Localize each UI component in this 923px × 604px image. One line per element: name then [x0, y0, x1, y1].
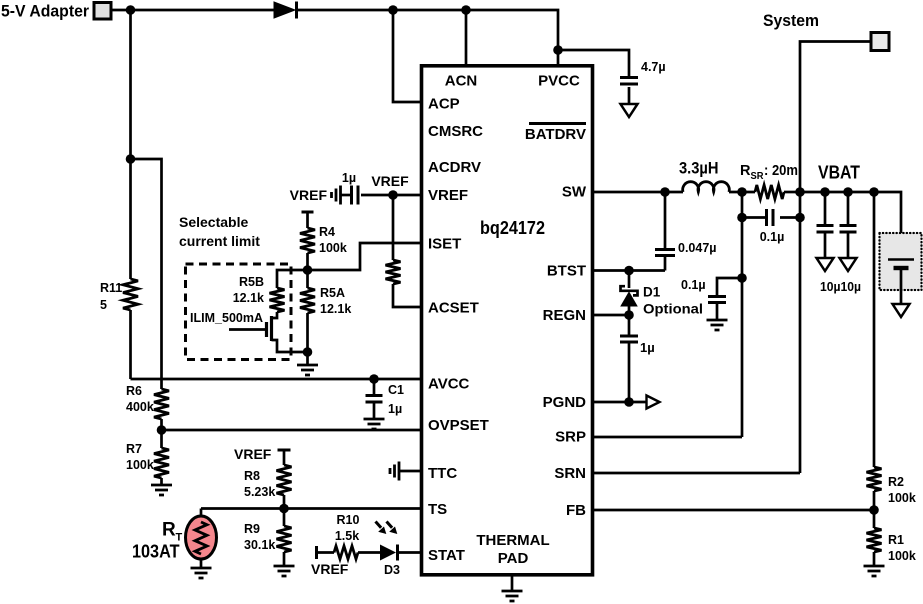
capacitor 10u A — [817, 226, 834, 233]
svg-text:current limit: current limit — [179, 233, 260, 249]
svg-text:THERMAL: THERMAL — [476, 532, 549, 549]
label 1u VREF cap — [342, 171, 356, 185]
wire AVCC net — [131, 378, 422, 381]
svg-text:PVCC: PVCC — [538, 73, 580, 90]
svg-text:12.1k: 12.1k — [233, 291, 264, 305]
wire filter right — [780, 216, 800, 219]
label 4.7u — [641, 60, 666, 74]
capacitor 0.1u filter — [767, 209, 774, 226]
resistor R5A 12.1k — [300, 288, 315, 313]
junction R8 R9 TS — [279, 504, 289, 514]
pin TTC — [428, 465, 457, 482]
label R2 value 100k — [888, 491, 916, 505]
svg-text:TTC: TTC — [428, 465, 457, 482]
wire TS net — [201, 507, 421, 510]
junction C1 on AVCC — [369, 374, 379, 384]
wire R2 to FB — [873, 491, 876, 510]
junction R6 R7 OVPSET — [157, 425, 167, 435]
label Selectable — [179, 214, 248, 230]
wire OVPSET net — [162, 429, 422, 432]
wire D1 cathode — [628, 271, 631, 289]
label RSR 20m — [740, 163, 798, 182]
ground sideways VREF cap — [332, 186, 341, 205]
wire SRN net — [593, 472, 801, 475]
ground R7 — [151, 485, 172, 495]
resistor ACSET divider — [386, 260, 401, 284]
junction filter left — [737, 213, 747, 223]
wire VREF down to ACSET resistor — [392, 195, 395, 260]
pin ACDRV — [428, 159, 481, 176]
svg-text:FB: FB — [566, 502, 586, 519]
pin ACN — [445, 73, 478, 90]
label R7 — [126, 442, 142, 456]
pin STAT — [428, 547, 465, 564]
svg-text:SR: SR — [751, 171, 765, 182]
capacitor 0.1u SRP gnd — [708, 297, 726, 303]
ground R5 network — [297, 365, 318, 375]
pin OVPSET — [428, 417, 489, 434]
pin CMSRC — [428, 123, 483, 140]
svg-text:R9: R9 — [244, 522, 260, 536]
junction 0.1u on SRP line — [737, 273, 747, 283]
svg-text:ACN: ACN — [445, 73, 478, 90]
junction FB divider — [869, 505, 879, 515]
wire 4.7u cap to gnd — [628, 87, 631, 104]
wire R11 to AVCC — [129, 310, 132, 379]
svg-text:REGN: REGN — [543, 307, 586, 324]
svg-text:103AT: 103AT — [132, 542, 180, 562]
junction VBAT node — [795, 187, 805, 197]
label R5B value 12.1k — [233, 291, 264, 305]
label R4 — [319, 225, 335, 239]
diode D1 schottky optional — [620, 286, 638, 306]
svg-text:D3: D3 — [384, 563, 400, 577]
label 0.1u srp cap — [681, 278, 706, 292]
wire 0.047u to BTST — [664, 256, 667, 271]
wire ISET net — [308, 243, 422, 270]
resistor R4 100k — [300, 228, 315, 253]
ground power 4.7u — [621, 104, 638, 117]
svg-text:D1: D1 — [643, 285, 661, 300]
svg-text:5.23k: 5.23k — [244, 485, 275, 499]
wire BTST net — [593, 269, 666, 272]
ground sideways TTC — [390, 462, 399, 481]
wire junction to R5A — [306, 270, 309, 288]
wire R6 to OVPSET — [160, 419, 163, 430]
label R11 value 5 — [100, 298, 107, 312]
wire R5B to drain — [272, 312, 278, 318]
svg-text:30.1k: 30.1k — [244, 538, 275, 552]
resistor R10 1.5k — [334, 546, 358, 559]
wire R8 top — [283, 450, 286, 465]
junction filter right — [795, 213, 805, 223]
label R5B — [239, 275, 264, 289]
label R10 value 1.5k — [335, 529, 359, 543]
wire R5A to bottom junction — [306, 313, 309, 352]
ground 0.1u — [707, 320, 728, 330]
wire R4 top — [306, 212, 309, 228]
resistor R6 400k — [154, 389, 169, 419]
pin SRP — [555, 429, 586, 446]
op-amp U1 bq24172 body — [422, 66, 593, 575]
transistor Q1 nmos — [267, 316, 272, 341]
label R8 — [244, 469, 260, 483]
label R9 value 30.1k — [244, 538, 275, 552]
ground power 10u A — [817, 258, 834, 271]
svg-text:: 20m: : 20m — [764, 163, 798, 179]
label R1 value 100k — [888, 549, 916, 563]
svg-text:SRP: SRP — [555, 429, 586, 446]
junction SW 0.047u — [660, 187, 670, 197]
resistor R9 30.1k — [277, 526, 292, 552]
wire gnd to 1u cap — [341, 194, 351, 197]
battery cell symbol — [888, 260, 914, 269]
wire R1 to gnd — [873, 552, 876, 565]
svg-text:ILIM_500mA: ILIM_500mA — [190, 311, 263, 325]
dashed box selectable current limit — [186, 264, 292, 360]
label R4 value 100k — [319, 241, 347, 255]
svg-text:ACDRV: ACDRV — [428, 159, 481, 176]
ground power battery — [893, 304, 910, 317]
svg-text:TS: TS — [428, 501, 447, 518]
label current limit — [179, 233, 260, 249]
svg-text:12.1k: 12.1k — [320, 302, 351, 316]
label ILIM_500mA — [190, 311, 263, 325]
wire FB to R1 — [873, 510, 876, 528]
wire SW to 0.047u — [664, 192, 667, 249]
svg-text:VREF: VREF — [428, 187, 468, 204]
junction PGND — [624, 397, 634, 407]
LED arrows D3 — [376, 522, 398, 535]
svg-text:R: R — [162, 520, 176, 541]
wire diode to PVCC corner — [297, 10, 559, 66]
arrow PGND net pointer — [647, 396, 660, 409]
junction REGN D1 — [624, 310, 634, 320]
svg-text:100k: 100k — [888, 491, 916, 505]
svg-text:1.5k: 1.5k — [335, 529, 359, 543]
label VREF net left — [290, 187, 328, 203]
label 5-V Adapter — [1, 2, 89, 21]
svg-text:100k: 100k — [888, 549, 916, 563]
junction R4 R5A ISET — [303, 265, 313, 275]
label R10 — [337, 513, 360, 527]
wire 10u B top — [847, 192, 850, 225]
wire D1 anode to REGN — [628, 307, 631, 316]
ground power 10u B — [840, 258, 857, 271]
resistor zigzag inside RT — [195, 522, 207, 554]
wire PVCC to 4.7u cap — [558, 50, 629, 78]
wire battery bottom — [900, 268, 903, 304]
ground R9 — [274, 566, 295, 576]
junction D1 BTST — [624, 266, 634, 276]
svg-text:1µ: 1µ — [342, 171, 356, 185]
svg-text:OVPSET: OVPSET — [428, 417, 489, 434]
svg-text:BATDRV: BATDRV — [525, 126, 586, 143]
ground C1 — [364, 419, 385, 429]
junction adapter node — [126, 5, 136, 15]
wire branch to R6 rail — [131, 159, 162, 389]
pin TS — [428, 501, 447, 518]
wire 1u cap to VREF pin — [361, 194, 421, 197]
label D1 Optional — [643, 302, 703, 317]
svg-text:100k: 100k — [319, 241, 347, 255]
svg-text:400k: 400k — [126, 400, 154, 414]
svg-text:1µ: 1µ — [388, 402, 402, 416]
label VREF net at pin — [371, 173, 409, 189]
wire thermal pad to gnd — [511, 575, 514, 590]
wire R7 to gnd — [160, 478, 163, 484]
label R2 — [888, 475, 904, 489]
node PVCC tap — [553, 45, 563, 55]
wire R10 to D3 — [358, 551, 380, 554]
capacitor 1u REGN — [620, 336, 638, 342]
svg-text:ACSET: ACSET — [428, 300, 479, 317]
svg-text:R2: R2 — [888, 475, 904, 489]
svg-text:R6: R6 — [126, 384, 142, 398]
svg-text:AVCC: AVCC — [428, 376, 470, 393]
resistor R5B 12.1k — [270, 288, 285, 312]
diode D3 LED — [380, 545, 398, 561]
label RT — [162, 520, 183, 544]
label D1 — [643, 285, 661, 300]
ground thermal pad — [502, 591, 523, 601]
svg-text:C1: C1 — [388, 383, 404, 397]
svg-text:R: R — [740, 163, 751, 179]
wire ACSET resistor to pin — [393, 284, 421, 307]
label R1 — [888, 533, 904, 547]
label R5A — [320, 286, 345, 300]
pin AVCC — [428, 376, 470, 393]
label 3.3uH — [679, 160, 719, 178]
svg-text:PAD: PAD — [498, 550, 529, 567]
svg-text:R4: R4 — [319, 225, 335, 239]
label 1u REGN — [640, 340, 655, 355]
svg-text:0.1µ: 0.1µ — [760, 230, 785, 244]
svg-text:5: 5 — [100, 298, 107, 312]
capacitor 1u VREF — [352, 186, 359, 205]
wire OVPSET to R7 — [160, 430, 163, 448]
resistor R8 5.23k — [277, 465, 292, 495]
terminal VREF tick R10 — [315, 546, 318, 559]
wire REGN to 1u cap — [628, 315, 631, 336]
wire R9 to gnd — [283, 552, 286, 565]
pin SW — [562, 184, 587, 201]
label VREF net R10 — [311, 561, 349, 577]
label R8 value 5.23k — [244, 485, 275, 499]
wire D3 to STAT — [398, 551, 422, 554]
label THERMAL — [476, 532, 549, 549]
wire ACP drop — [393, 10, 421, 102]
label VBAT — [818, 163, 860, 183]
wire adapter down rail — [129, 10, 132, 279]
wire FB net — [593, 509, 875, 512]
resistor R7 100k — [154, 448, 169, 478]
junction VREF node — [388, 190, 398, 200]
svg-text:ACP: ACP — [428, 96, 460, 113]
capacitor C1 1u — [366, 396, 383, 403]
junction left rail split — [126, 154, 136, 164]
label R6 value 400k — [126, 400, 154, 414]
label PAD — [498, 550, 529, 567]
label 0.047u — [678, 241, 716, 255]
junction SRP node — [737, 187, 747, 197]
svg-text:R7: R7 — [126, 442, 142, 456]
junction R5 bottom — [303, 347, 313, 357]
wire VBAT rail — [800, 192, 901, 259]
wire REGN net — [593, 314, 630, 317]
svg-text:VREF: VREF — [234, 446, 272, 462]
capacitor 10u B — [840, 226, 857, 233]
wire bottom junction to gnd — [306, 352, 309, 364]
label 0.1u filter — [760, 230, 785, 244]
wire 10u B bottom — [847, 232, 850, 258]
svg-text:SRN: SRN — [554, 465, 586, 482]
label R5A value 12.1k — [320, 302, 351, 316]
junction 10u cap A — [820, 187, 830, 197]
wire SRP vertical — [741, 192, 744, 437]
junction R2 tap — [869, 187, 879, 197]
ground RT — [191, 568, 212, 578]
label bq24172 — [480, 218, 545, 238]
svg-text:VREF: VREF — [371, 173, 409, 189]
wire VREF to R10 — [317, 551, 335, 554]
junction 10u cap B — [843, 187, 853, 197]
pin FB — [566, 502, 586, 519]
resistor R1 100k — [867, 528, 882, 552]
svg-text:SW: SW — [562, 184, 587, 201]
wire R4 to junction — [306, 253, 309, 270]
wire ACN drop — [465, 10, 468, 66]
svg-text:4.7µ: 4.7µ — [641, 60, 666, 74]
svg-text:Optional: Optional — [643, 302, 703, 317]
svg-text:ISET: ISET — [428, 236, 461, 253]
wire RSR to VBAT — [784, 191, 800, 194]
pin ACP — [428, 96, 460, 113]
label R11 — [100, 281, 122, 295]
pin BATDRV — [525, 124, 586, 144]
label R6 — [126, 384, 142, 398]
wire PGND net — [593, 401, 647, 404]
inductor L1 3.3uH — [683, 182, 730, 192]
wire TS to R9 — [283, 509, 286, 527]
svg-text:0.1µ: 0.1µ — [681, 278, 706, 292]
svg-text:R1: R1 — [888, 533, 904, 547]
diode D input blocking — [274, 2, 297, 19]
svg-text:CMSRC: CMSRC — [428, 123, 483, 140]
node ACP tap — [388, 5, 398, 15]
wire C1 to gnd — [373, 403, 376, 419]
thermistor RT 103AT — [186, 516, 217, 559]
node ACN tap — [461, 5, 471, 15]
pin BTST — [547, 263, 586, 280]
wire 0.1u to gnd — [716, 303, 719, 320]
svg-text:10µ10µ: 10µ10µ — [820, 280, 861, 294]
wire RT top — [200, 509, 203, 518]
pin PVCC — [538, 73, 580, 90]
wire inductor to RSR — [729, 191, 755, 194]
wire R2 from VBAT — [873, 192, 876, 467]
svg-text:BTST: BTST — [547, 263, 586, 280]
svg-text:R11: R11 — [100, 281, 122, 295]
wire R8 to TS — [283, 495, 286, 509]
wire adapter to diode — [111, 9, 274, 12]
svg-text:bq24172: bq24172 — [480, 218, 545, 238]
svg-text:PGND: PGND — [543, 394, 587, 411]
wire 10u A top — [824, 192, 827, 225]
wire 10u A bottom — [824, 232, 827, 258]
label D3 — [384, 563, 400, 577]
resistor R11 5 — [123, 279, 138, 310]
svg-text:100k: 100k — [126, 458, 154, 472]
label System — [763, 11, 819, 30]
label R7 value 100k — [126, 458, 154, 472]
svg-text:STAT: STAT — [428, 547, 465, 564]
pin ISET — [428, 236, 461, 253]
label C1 value 1u — [388, 402, 402, 416]
label VREF net R8 — [234, 446, 272, 462]
label R9 — [244, 522, 260, 536]
wire 0.1u top — [717, 278, 742, 296]
wire 1u cap to PGND — [628, 342, 631, 402]
pin REGN — [543, 307, 586, 324]
pin VREF — [428, 187, 468, 204]
pin SRN — [554, 465, 586, 482]
wire R5B top — [277, 270, 308, 288]
capacitor 0.047u — [655, 250, 675, 256]
terminal VREF tick R4 — [302, 211, 314, 214]
svg-text:System: System — [763, 11, 819, 30]
battery pack box — [880, 233, 922, 290]
resistor R2 100k — [867, 467, 882, 491]
label 10u caps — [820, 280, 861, 294]
svg-text:Selectable: Selectable — [179, 214, 248, 230]
wire TTC — [399, 470, 421, 473]
wire Q1 source — [272, 340, 308, 352]
wire RT to gnd — [200, 559, 203, 567]
connector J1 5-V adapter — [94, 3, 111, 20]
ground R1 — [864, 566, 885, 576]
svg-text:R5A: R5A — [320, 286, 345, 300]
wire C1 top — [373, 379, 376, 395]
connector J2 System — [871, 33, 889, 51]
pin ACSET — [428, 300, 479, 317]
svg-text:R8: R8 — [244, 469, 260, 483]
svg-text:5-V Adapter: 5-V Adapter — [1, 2, 89, 21]
pin PGND — [543, 394, 587, 411]
wire System — [800, 42, 871, 474]
svg-text:VBAT: VBAT — [818, 163, 860, 183]
label C1 — [388, 383, 404, 397]
wire SRP net — [593, 436, 743, 439]
svg-text:0.047µ: 0.047µ — [678, 241, 716, 255]
wire SW net — [593, 191, 684, 194]
wire filter left — [742, 216, 766, 219]
label RT value 103AT — [132, 542, 180, 562]
wire Q1 gate ILIM — [229, 328, 265, 331]
svg-text:R10: R10 — [337, 513, 360, 527]
svg-text:3.3µH: 3.3µH — [679, 160, 719, 178]
terminal VREF tick R8 — [278, 449, 291, 452]
svg-text:R5B: R5B — [239, 275, 264, 289]
capacitor 4.7u PVCC — [620, 78, 638, 85]
svg-text:1µ: 1µ — [640, 340, 655, 355]
svg-text:VREF: VREF — [290, 187, 328, 203]
resistor RSR 20m — [755, 185, 784, 199]
svg-text:VREF: VREF — [311, 561, 349, 577]
